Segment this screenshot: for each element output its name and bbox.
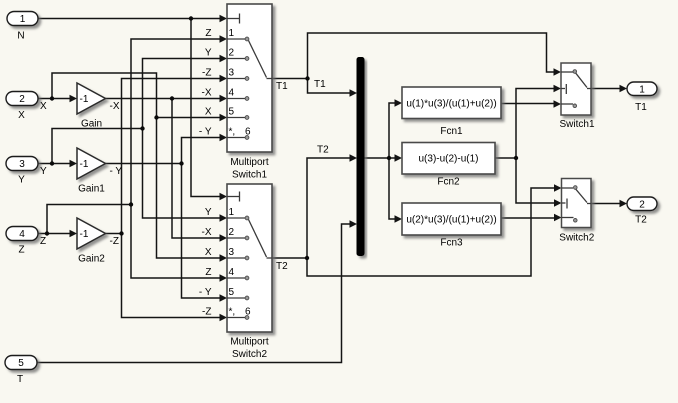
wire T1 to Mux input1 bbox=[308, 79, 353, 94]
svg-text:-Z: -Z bbox=[202, 68, 211, 79]
wire Mux output to branch node bbox=[364, 157, 389, 159]
wire -X from Gain to Multiport Switch1 port4 bbox=[105, 98, 222, 100]
svg-text:*,: *, bbox=[229, 307, 236, 318]
svg-text:1: 1 bbox=[229, 207, 235, 218]
wire T2 from Multiport Switch2 to junction bbox=[272, 257, 308, 259]
svg-text:Y: Y bbox=[205, 207, 212, 218]
svg-text:2: 2 bbox=[19, 94, 25, 105]
wire N branch to Multiport Switch2 control bbox=[191, 19, 222, 197]
wire Fcn3 output to Switch2 port3 bbox=[501, 217, 556, 219]
wire -Y from Gain1 to junction bbox=[105, 163, 182, 165]
svg-text:Z: Z bbox=[205, 267, 211, 278]
multiport switch1 body bbox=[227, 4, 272, 152]
junction T2 branch bbox=[305, 256, 309, 260]
arrowhead Fcn3 input bbox=[395, 215, 403, 222]
gain block Gain1 bbox=[77, 148, 106, 179]
junction Fcn2 output branch bbox=[514, 156, 518, 160]
svg-text:Gain: Gain bbox=[81, 119, 102, 130]
fcn block Fcn3 bbox=[402, 203, 501, 235]
svg-text:T2: T2 bbox=[317, 145, 329, 156]
outport 2 T2 bbox=[627, 197, 657, 211]
wire -Z to Multiport Switch1 port3 bbox=[122, 79, 223, 234]
svg-text:- Y: - Y bbox=[110, 166, 123, 177]
arrowhead Mux input2 bbox=[350, 154, 358, 161]
arrowhead Switch2 port1 bbox=[554, 184, 562, 191]
svg-text:Fcn1: Fcn1 bbox=[440, 126, 463, 137]
svg-text:-X: -X bbox=[202, 227, 212, 238]
wire T from Inport5 to Mux input3 bbox=[37, 224, 353, 363]
svg-text:1: 1 bbox=[229, 28, 235, 39]
wire to Fcn2 input bbox=[389, 157, 397, 159]
wire Z branch riser bbox=[47, 205, 131, 234]
svg-text:Multiport: Multiport bbox=[230, 337, 269, 348]
svg-text:Y: Y bbox=[18, 175, 25, 186]
svg-text:N: N bbox=[17, 31, 24, 42]
svg-text:T2: T2 bbox=[635, 215, 647, 226]
inport 5 T bbox=[5, 356, 37, 370]
wire Y from Inport3 to Gain1 bbox=[38, 163, 72, 165]
arrowhead Mux input1 bbox=[350, 89, 358, 96]
wire T1 from Multiport Switch1 to junction bbox=[272, 78, 308, 80]
arrowhead Multiport Switch1 port1 bbox=[220, 35, 228, 42]
svg-text:-1: -1 bbox=[80, 229, 89, 240]
wire -Z from Gain2 to junction bbox=[105, 233, 122, 235]
wire Y to Multiport Switch2 port1 bbox=[143, 129, 223, 219]
arrowhead Switch1 control bbox=[554, 85, 562, 92]
arrowhead Multiport Switch2 port1 bbox=[220, 214, 228, 221]
junction -X branch bbox=[170, 96, 174, 100]
svg-text:u(1)*u(3)/(u(1)+u(2)): u(1)*u(3)/(u(1)+u(2)) bbox=[406, 99, 496, 110]
arrowhead Multiport Switch1 port3 bbox=[220, 75, 228, 82]
arrowhead into Gain bbox=[70, 95, 78, 102]
svg-text:*,: *, bbox=[229, 127, 236, 138]
svg-text:T1: T1 bbox=[314, 79, 326, 90]
junction -Y branch bbox=[179, 161, 183, 165]
arrowhead Fcn2 input bbox=[395, 154, 403, 161]
arrowhead Multiport Switch1 port6 bbox=[220, 134, 228, 141]
arrowhead Multiport Switch2 port2 bbox=[220, 234, 228, 241]
svg-text:Multiport: Multiport bbox=[230, 157, 269, 168]
wire Switch2 output to Outport2 bbox=[591, 203, 621, 205]
svg-text:- Y: - Y bbox=[199, 287, 212, 298]
arrowhead Switch1 port1 bbox=[554, 68, 562, 75]
svg-text:u(2)*u(3)/(u(1)+u(2)): u(2)*u(3)/(u(1)+u(2)) bbox=[406, 215, 496, 226]
svg-text:3: 3 bbox=[19, 159, 25, 170]
svg-text:2: 2 bbox=[639, 200, 645, 211]
wire N from Inport1 to Multiport Switch1 control bbox=[38, 18, 222, 20]
arrowhead Multiport Switch1 port2 bbox=[220, 55, 228, 62]
multiport switch2 internals bbox=[227, 192, 272, 318]
svg-text:Fcn3: Fcn3 bbox=[440, 238, 463, 249]
svg-text:1: 1 bbox=[639, 85, 645, 96]
svg-text:Gain2: Gain2 bbox=[78, 254, 105, 265]
wire Y branch riser bbox=[52, 129, 143, 164]
svg-text:Switch2: Switch2 bbox=[232, 349, 267, 360]
arrowhead Multiport Switch2 port4 bbox=[220, 274, 228, 281]
fcn block Fcn2 bbox=[402, 143, 495, 175]
svg-text:X: X bbox=[18, 110, 25, 121]
svg-text:-Z: -Z bbox=[110, 236, 119, 247]
junction N branch bbox=[189, 16, 193, 20]
svg-text:4: 4 bbox=[19, 229, 25, 240]
junction T1 branch bbox=[305, 76, 309, 80]
arrowhead Switch2 port3 bbox=[554, 214, 562, 221]
arrowhead Multiport Switch1 port4 bbox=[220, 95, 228, 102]
wire Switch1 output to Outport1 bbox=[591, 88, 621, 90]
arrowhead Outport2 bbox=[620, 200, 628, 207]
wire Z from Inport4 to Gain2 bbox=[38, 233, 72, 235]
mux block bbox=[357, 58, 364, 256]
junction X branch bbox=[50, 96, 54, 100]
outport 1 T1 bbox=[627, 82, 657, 96]
gain block Gain bbox=[77, 83, 106, 114]
multiport switch1 internals bbox=[227, 14, 272, 138]
svg-text:4: 4 bbox=[229, 267, 235, 278]
arrowhead Fcn1 input bbox=[395, 99, 403, 106]
arrowhead Multiport Switch1 control bbox=[220, 15, 228, 22]
wire T1 to Switch1 port1 bbox=[308, 33, 557, 79]
junction Z riser bbox=[129, 202, 133, 206]
junction X to port5 bbox=[154, 115, 158, 119]
gain block Gain2 bbox=[77, 218, 106, 249]
multiport switch2 body bbox=[227, 184, 272, 332]
svg-text:-1: -1 bbox=[80, 94, 89, 105]
arrowhead Multiport Switch2 port5 bbox=[220, 294, 228, 301]
svg-text:2: 2 bbox=[229, 48, 235, 59]
arrowhead Multiport Switch2 control bbox=[220, 193, 228, 200]
junction Y riser bbox=[140, 126, 144, 130]
wire Z to Multiport Switch2 port4 bbox=[131, 205, 222, 279]
arrowhead Mux input3 bbox=[350, 220, 358, 227]
svg-text:Z: Z bbox=[205, 28, 211, 39]
svg-text:Gain1: Gain1 bbox=[78, 184, 105, 195]
svg-text:X: X bbox=[205, 107, 212, 118]
svg-text:4: 4 bbox=[229, 88, 235, 99]
wire Fcn2 to Switch2 control port bbox=[516, 158, 556, 203]
svg-text:X: X bbox=[40, 101, 47, 112]
svg-text:2: 2 bbox=[229, 227, 235, 238]
inport 3 Y bbox=[6, 157, 38, 171]
svg-text:3: 3 bbox=[229, 247, 235, 258]
svg-text:6: 6 bbox=[245, 127, 251, 138]
switch block Switch1 internals bbox=[561, 72, 591, 104]
arrowhead Multiport Switch2 port3 bbox=[220, 254, 228, 261]
junction Z branch bbox=[45, 231, 49, 235]
svg-text:T1: T1 bbox=[635, 102, 647, 113]
inport 4 Z bbox=[6, 227, 38, 241]
svg-text:Y: Y bbox=[205, 48, 212, 59]
ARROWS bbox=[70, 15, 628, 321]
inport 1 N bbox=[7, 12, 38, 26]
wire T2 to Switch2 port1 bbox=[307, 188, 556, 276]
arrowhead into Gain1 bbox=[70, 160, 78, 167]
svg-text:1: 1 bbox=[20, 14, 26, 25]
wire to Fcn3 input bbox=[389, 158, 397, 219]
svg-text:-Z: -Z bbox=[202, 307, 211, 318]
svg-text:Fcn2: Fcn2 bbox=[437, 177, 460, 188]
arrowhead Multiport Switch1 port5 bbox=[220, 114, 228, 121]
arrowhead Switch2 control bbox=[554, 199, 562, 206]
svg-text:3: 3 bbox=[229, 68, 235, 79]
svg-text:Y: Y bbox=[40, 166, 47, 177]
svg-text:Switch1: Switch1 bbox=[559, 119, 594, 130]
inport 2 X bbox=[6, 92, 38, 106]
wire Fcn2 to Switch1 control port bbox=[516, 89, 556, 159]
svg-text:T1: T1 bbox=[276, 81, 288, 92]
wire X branch to Multiport Switch1 port5 bbox=[157, 117, 223, 119]
arrowhead Outport1 bbox=[620, 85, 628, 92]
svg-text:Switch2: Switch2 bbox=[559, 233, 594, 244]
arrowhead Multiport Switch2 port6 bbox=[220, 314, 228, 321]
svg-text:Switch1: Switch1 bbox=[232, 170, 267, 181]
fcn block Fcn1 bbox=[402, 87, 501, 119]
arrowhead Switch1 port3 bbox=[554, 100, 562, 107]
svg-text:6: 6 bbox=[245, 307, 251, 318]
wire X branch to switches bbox=[52, 73, 222, 258]
wire to Fcn1 input bbox=[389, 103, 397, 158]
svg-text:X: X bbox=[205, 247, 212, 258]
wire Fcn1 output to Switch1 port3 bbox=[501, 103, 556, 105]
switch block Switch2 internals bbox=[562, 188, 592, 218]
wire Z to Multiport Switch1 port1 bbox=[131, 39, 222, 205]
svg-text:Z: Z bbox=[18, 245, 24, 256]
svg-text:Z: Z bbox=[40, 236, 46, 247]
switch block Switch1 body bbox=[561, 63, 591, 115]
svg-text:5: 5 bbox=[18, 358, 24, 369]
svg-text:T2: T2 bbox=[276, 261, 288, 272]
wire X from Inport2 to Gain bbox=[38, 98, 72, 100]
wire -Y to Multiport Switch2 port5 bbox=[182, 164, 223, 299]
wire Y to Multiport Switch1 port2 bbox=[143, 59, 223, 129]
svg-text:T: T bbox=[17, 374, 23, 385]
arrowhead into Gain2 bbox=[70, 230, 78, 237]
svg-text:u(3)-u(2)-u(1): u(3)-u(2)-u(1) bbox=[418, 154, 478, 165]
svg-text:5: 5 bbox=[229, 107, 235, 118]
svg-text:- Y: - Y bbox=[199, 127, 212, 138]
junction Y branch bbox=[50, 161, 54, 165]
svg-text:-X: -X bbox=[202, 88, 212, 99]
svg-text:-X: -X bbox=[110, 101, 120, 112]
wire -Y to Multiport Switch1 port6 bbox=[182, 138, 223, 164]
svg-text:5: 5 bbox=[229, 287, 235, 298]
junction Mux output branch bbox=[387, 156, 391, 160]
svg-text:-1: -1 bbox=[80, 159, 89, 170]
switch block Switch2 body bbox=[562, 179, 592, 228]
junction -Z branch bbox=[119, 231, 123, 235]
wire T2 to Mux input2 bbox=[307, 158, 352, 258]
wire -X branch to Multiport Switch2 port2 bbox=[172, 99, 222, 239]
wire -Z to Multiport Switch2 port6 bbox=[122, 234, 223, 318]
wire Fcn2 output to junction bbox=[495, 157, 516, 159]
